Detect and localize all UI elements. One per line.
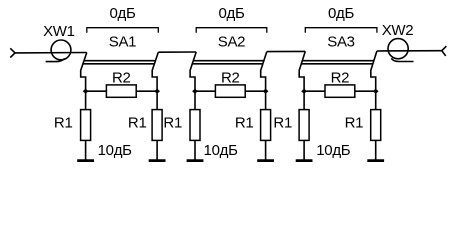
svg-text:XW2: XW2: [382, 22, 414, 39]
wire R2 rail section1: [86, 90, 158, 92]
svg-text:SA3: SA3: [327, 34, 354, 51]
wire contact lower SA1: [83, 63, 154, 65]
node B3: [373, 89, 379, 94]
resistor R2 section2: [215, 85, 245, 97]
wire R2 rail section2: [195, 90, 266, 92]
connector XW1: [46, 40, 71, 62]
ground a2: [187, 159, 204, 162]
node A3: [301, 89, 307, 94]
switch SA3.1 lever: [299, 51, 305, 91]
resistor R1 a2: [190, 110, 200, 141]
wire contact upper SA3: [302, 60, 374, 62]
node B1: [154, 89, 160, 94]
svg-text:SA2: SA2: [218, 34, 245, 51]
wire R1b section3: [375, 91, 377, 160]
wire R1a section2: [194, 91, 196, 160]
wire contact upper SA1: [84, 60, 155, 62]
wire contact lower SA2: [192, 63, 263, 65]
resistor R1 a1: [81, 110, 91, 141]
svg-text:XW1: XW1: [43, 23, 75, 40]
svg-text:R2: R2: [331, 70, 350, 87]
node B2: [263, 89, 269, 94]
svg-text:R2: R2: [112, 70, 131, 87]
resistor R1 b2: [261, 110, 271, 141]
svg-text:R1: R1: [345, 115, 364, 132]
wire input: [15, 52, 87, 54]
svg-text:R2: R2: [221, 70, 240, 87]
resistor R1 b1: [152, 110, 162, 141]
svg-text:R1: R1: [163, 115, 182, 132]
svg-text:10дБ: 10дБ: [316, 142, 351, 159]
bracket SA2: [196, 28, 267, 33]
bracket SA3: [305, 28, 377, 33]
switch SA2.1 lever: [190, 52, 196, 91]
svg-text:SA1: SA1: [109, 34, 136, 51]
wire R2 rail section3: [304, 90, 376, 92]
svg-text:0дБ: 0дБ: [109, 5, 135, 22]
wire link 2-3: [267, 50, 306, 52]
svg-text:10дБ: 10дБ: [204, 142, 239, 159]
connector XW2: [388, 39, 414, 62]
svg-text:0дБ: 0дБ: [328, 5, 354, 22]
svg-text:R1: R1: [54, 115, 73, 132]
pin arrow right: [442, 46, 447, 56]
node A2: [192, 89, 198, 94]
ground b1: [149, 159, 166, 162]
svg-text:0дБ: 0дБ: [218, 5, 244, 22]
wire R1a section3: [303, 91, 305, 160]
ground a1: [77, 159, 94, 162]
wire contact upper SA2: [193, 60, 264, 62]
switch SA2.2 lever: [261, 52, 267, 92]
resistor R1 b3: [371, 110, 381, 141]
pin arrow left: [10, 48, 15, 57]
ground b3: [367, 159, 384, 162]
svg-text:10дБ: 10дБ: [98, 142, 133, 159]
wire contact lower SA3: [301, 63, 373, 65]
wire R1b section1: [156, 91, 158, 160]
wire output: [377, 50, 442, 52]
wire link 1-2: [158, 51, 196, 53]
svg-text:R1: R1: [128, 115, 147, 132]
svg-text:R1: R1: [273, 115, 292, 132]
resistor R2 section3: [325, 85, 355, 97]
wire R1b section2: [265, 91, 267, 160]
wire R1a section1: [85, 91, 87, 160]
switch SA1.1 lever: [81, 53, 87, 92]
switch SA1.2 lever: [152, 52, 158, 91]
switch SA3.2 lever: [371, 51, 377, 91]
resistor R1 a3: [299, 110, 309, 141]
bracket SA1: [87, 28, 159, 33]
node A1: [83, 89, 89, 94]
resistor R2 section1: [106, 85, 136, 97]
ground a3: [296, 159, 313, 162]
ground b2: [257, 159, 274, 162]
svg-text:R1: R1: [235, 115, 254, 132]
